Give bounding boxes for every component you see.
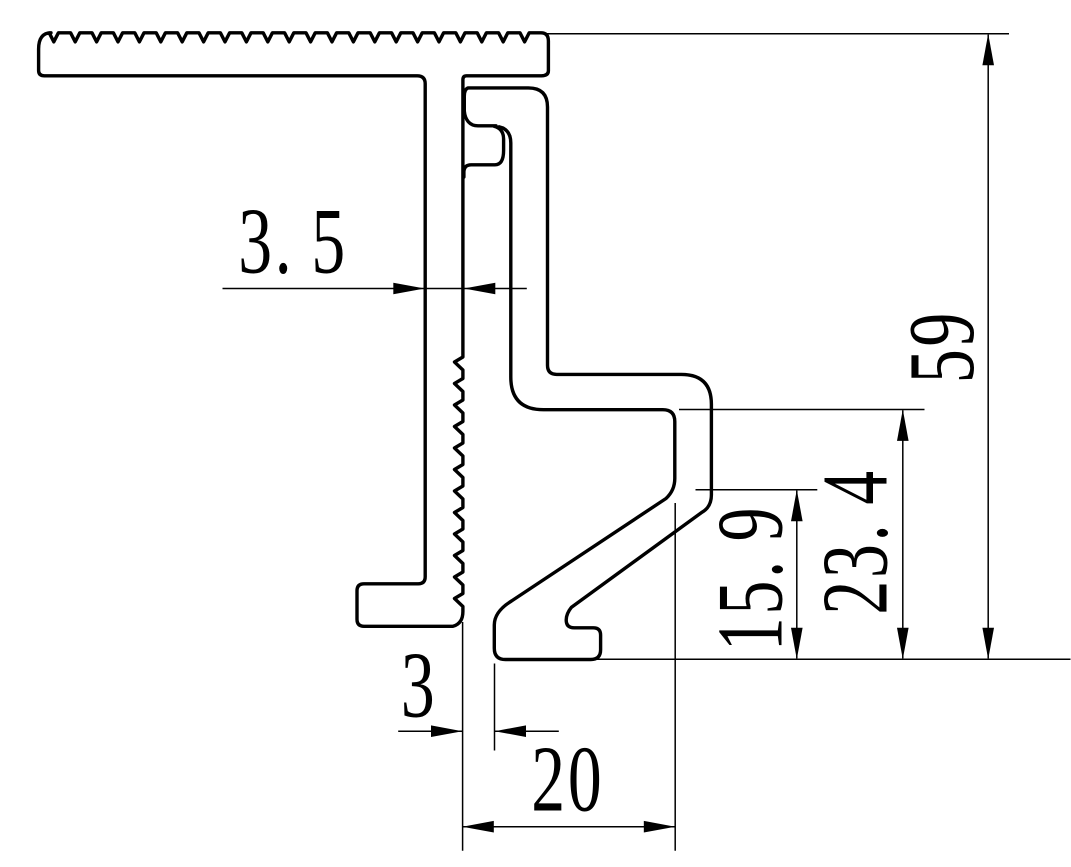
svg-text:4: 4 — [803, 471, 907, 505]
profile: hook finger — [464, 126, 504, 177]
svg-text:5: 5 — [311, 189, 345, 293]
svg-text:3: 3 — [803, 544, 907, 578]
dimension 3.5 (stem thickness) — [223, 189, 527, 295]
svg-text:.: . — [803, 524, 907, 541]
dimension 15.9 — [696, 490, 818, 659]
svg-text:3: 3 — [238, 189, 272, 293]
svg-text:3: 3 — [401, 633, 435, 737]
svg-text:5: 5 — [698, 581, 802, 615]
svg-text:.: . — [275, 189, 292, 293]
svg-text:1: 1 — [698, 617, 802, 651]
svg-text:9: 9 — [698, 507, 802, 541]
svg-text:9: 9 — [889, 313, 993, 347]
profile: flange + stem + stem foot — [39, 33, 549, 627]
dimension 59 (overall height) — [539, 34, 1070, 659]
profile: wall, step, diagonal strut, right foot, arm — [464, 88, 711, 660]
svg-text:2: 2 — [803, 581, 907, 615]
svg-text:5: 5 — [889, 349, 993, 383]
svg-text:2: 2 — [531, 727, 565, 831]
dimension 20 (foot width) — [462, 503, 675, 851]
svg-text:0: 0 — [568, 727, 602, 831]
dimension 23.4 — [679, 410, 925, 660]
dimension 3 (gap between stem and foot) — [398, 622, 559, 851]
svg-text:.: . — [698, 561, 802, 578]
